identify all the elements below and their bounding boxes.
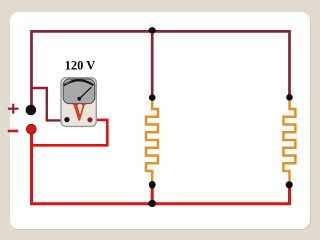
node: R1 bottom: [149, 181, 156, 189]
node: top rail / middle branch junction: [149, 27, 156, 33]
wire: bottom rail (red): [32, 129, 290, 204]
terminal: + (black dot): [26, 105, 37, 116]
node: R2 top: [286, 94, 293, 101]
voltmeter needle pivot: [77, 97, 81, 101]
node: bottom rail / middle branch junction: [148, 200, 156, 207]
resistor R2 (right, orange zigzag): [283, 98, 295, 185]
node: R2 bottom: [286, 181, 293, 188]
voltmeter screen: [63, 79, 94, 104]
wire: branch from + wire to voltmeter left terminal (maroon): [32, 88, 65, 120]
wire: voltmeter right terminal loop (red): [32, 120, 108, 145]
node: R1 top: [149, 94, 156, 101]
voltmeter scale arc: [64, 80, 94, 85]
wire: middle resistor bottom lead (red): [151, 185, 154, 204]
voltmeter screen highlight: [66, 80, 71, 84]
voltmeter right terminal pin: [87, 117, 92, 122]
svg-text:120 V: 120 V: [65, 58, 96, 72]
svg-text:V: V: [73, 98, 86, 125]
label: - sign: [8, 130, 18, 133]
voltmeter U1 body: [61, 78, 96, 127]
voltmeter left terminal pin: [64, 117, 69, 122]
wire: middle branch drop (maroon): [151, 31, 154, 97]
label: + sign: [8, 104, 19, 114]
voltmeter needle: [79, 87, 91, 99]
resistor R1 (middle, orange zigzag): [146, 98, 158, 185]
terminal: - (red dot): [27, 125, 36, 134]
wire: top rail (maroon): [32, 31, 290, 110]
